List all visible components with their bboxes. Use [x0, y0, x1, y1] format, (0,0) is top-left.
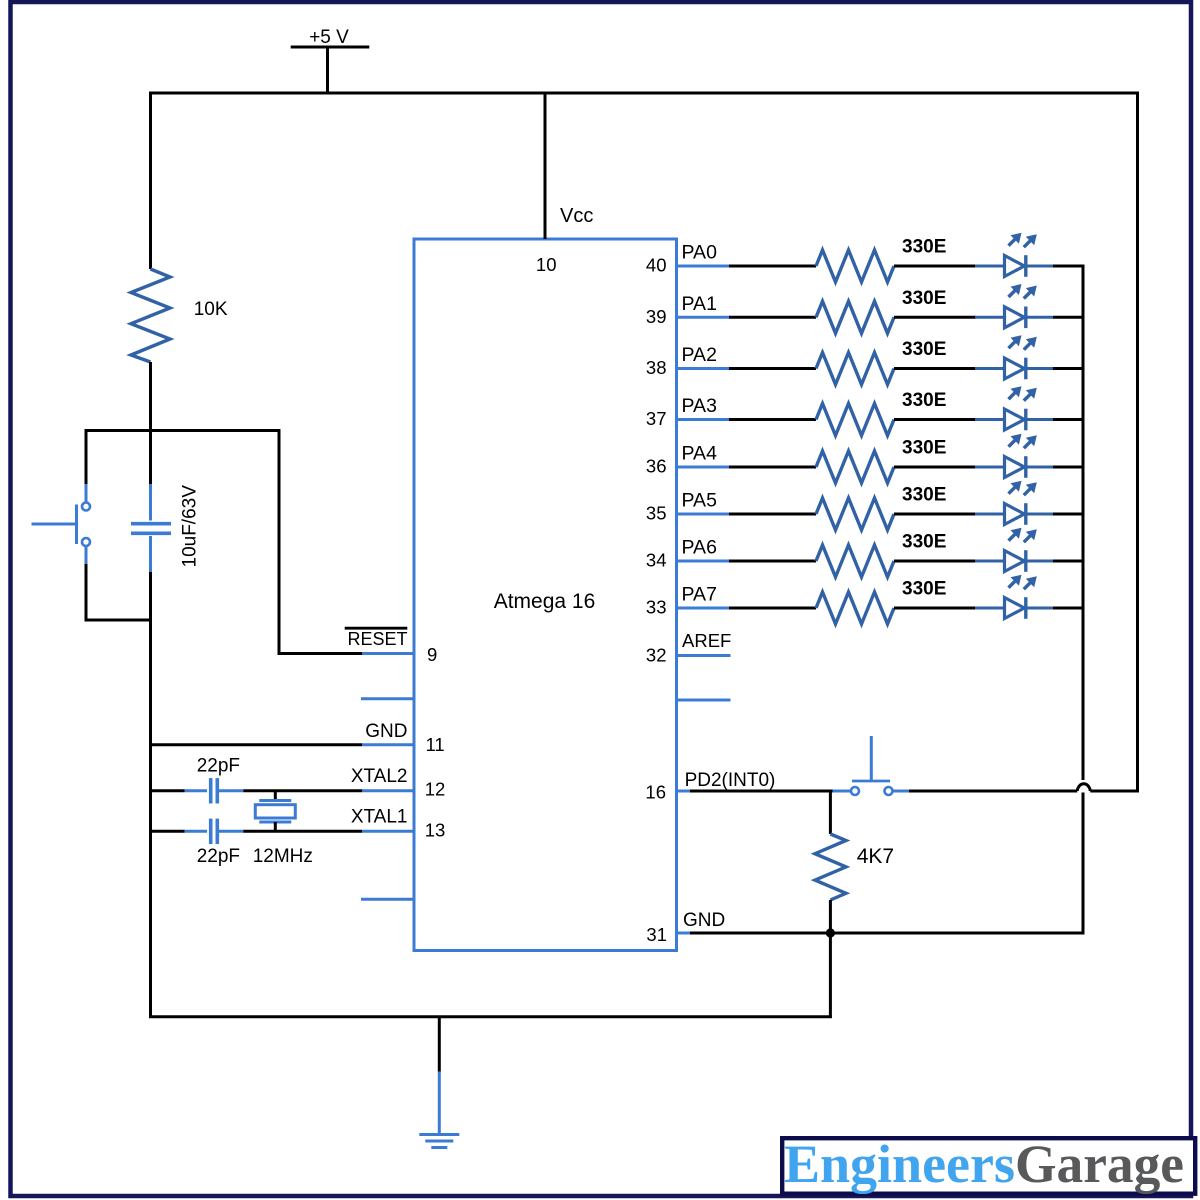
- svg-text:Atmega 16: Atmega 16: [494, 590, 596, 613]
- svg-text:32: 32: [646, 645, 667, 666]
- svg-text:13: 13: [425, 820, 446, 841]
- svg-text:PA5: PA5: [682, 490, 718, 512]
- svg-text:34: 34: [646, 550, 667, 571]
- svg-text:16: 16: [645, 782, 666, 803]
- svg-text:PA7: PA7: [682, 584, 717, 606]
- svg-text:AREF: AREF: [682, 630, 731, 651]
- svg-text:330E: 330E: [902, 288, 946, 309]
- svg-text:PA1: PA1: [682, 293, 717, 315]
- svg-text:PA3: PA3: [682, 395, 717, 417]
- svg-text:22pF: 22pF: [197, 755, 240, 776]
- svg-text:10: 10: [536, 254, 557, 275]
- svg-text:330E: 330E: [902, 579, 946, 600]
- svg-text:330E: 330E: [902, 339, 946, 360]
- svg-text:12MHz: 12MHz: [253, 846, 313, 867]
- svg-text:31: 31: [646, 924, 667, 945]
- svg-text:PD2(INT0): PD2(INT0): [685, 770, 776, 791]
- svg-text:+5 V: +5 V: [309, 27, 349, 48]
- svg-text:37: 37: [646, 408, 667, 429]
- svg-text:40: 40: [646, 255, 667, 276]
- svg-text:39: 39: [646, 306, 667, 327]
- svg-text:10uF/63V: 10uF/63V: [180, 485, 201, 568]
- svg-text:330E: 330E: [902, 438, 946, 459]
- svg-text:XTAL2: XTAL2: [351, 766, 408, 787]
- svg-text:330E: 330E: [902, 485, 946, 506]
- svg-text:12: 12: [425, 778, 446, 799]
- svg-text:38: 38: [646, 357, 667, 378]
- svg-text:22pF: 22pF: [197, 846, 240, 867]
- svg-text:PA2: PA2: [682, 344, 717, 366]
- svg-text:PA0: PA0: [682, 242, 718, 264]
- svg-text:RESET: RESET: [347, 629, 407, 649]
- svg-text:Engineers: Engineers: [784, 1134, 1015, 1194]
- svg-text:GND: GND: [683, 910, 725, 931]
- svg-text:36: 36: [646, 456, 667, 477]
- svg-text:PA6: PA6: [682, 537, 717, 559]
- svg-text:9: 9: [427, 644, 437, 665]
- svg-text:4K7: 4K7: [857, 845, 894, 868]
- svg-text:330E: 330E: [902, 390, 946, 411]
- svg-text:35: 35: [646, 503, 667, 524]
- svg-text:33: 33: [646, 597, 667, 618]
- svg-text:11: 11: [426, 734, 445, 755]
- svg-text:Garage: Garage: [1015, 1134, 1184, 1194]
- svg-text:PA4: PA4: [682, 443, 718, 465]
- svg-text:Vcc: Vcc: [560, 205, 593, 227]
- svg-text:10K: 10K: [194, 299, 228, 320]
- svg-text:330E: 330E: [902, 532, 946, 553]
- svg-text:XTAL1: XTAL1: [351, 807, 408, 828]
- svg-text:GND: GND: [365, 721, 407, 742]
- svg-text:330E: 330E: [902, 237, 946, 258]
